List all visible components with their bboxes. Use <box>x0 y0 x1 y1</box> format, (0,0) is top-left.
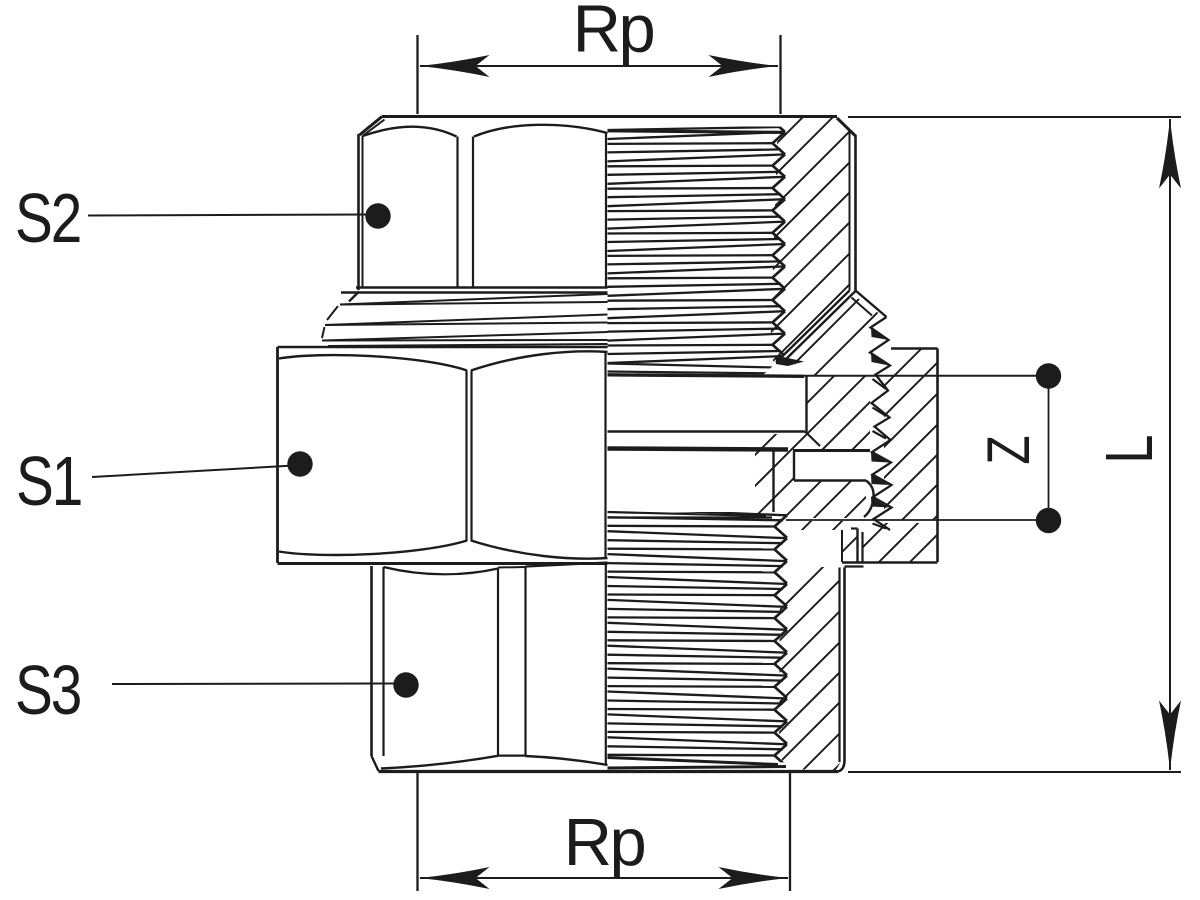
dimension Rp bottom: dimension line with arrows <box>420 867 789 889</box>
section: internal thread bottom zone <box>608 508 788 766</box>
dimension Rp bottom: extension line right <box>789 773 791 891</box>
union nut S3: bottom hex face arcs <box>381 756 608 769</box>
section: middle hatching <box>280 0 1200 900</box>
body S1: hex corner lines <box>467 371 472 542</box>
label S1 leader dot <box>287 451 312 476</box>
label S2 leader dot <box>365 203 390 228</box>
body S1: top hex face arcs <box>279 351 608 370</box>
union nut S2: hex face arcs <box>363 125 608 137</box>
dimension Rp top: dimension line with arrows <box>420 55 779 77</box>
dimension Z: reference line lower <box>786 519 1048 521</box>
dimension L: vertical dimension line with arrows <box>1159 119 1181 771</box>
section: cone gap hatch dashes <box>258 0 1190 900</box>
svg-text:Rp: Rp <box>573 0 654 67</box>
section: male thread dark fills <box>871 328 889 529</box>
label S2 leader line <box>88 215 370 216</box>
label S3 leader line <box>112 683 398 686</box>
dimension Rp top: label <box>573 0 654 67</box>
section: step notch lines <box>842 529 938 563</box>
collar thread run-out wedges <box>322 294 608 346</box>
section boundary edge of S3 hex <box>605 563 607 765</box>
section: flange box hatching <box>370 0 1200 900</box>
label S3 <box>15 651 80 729</box>
label S3 leader dot <box>393 672 418 697</box>
label S1 <box>16 442 81 520</box>
section boundary edge of S1 hex <box>604 352 606 558</box>
dimension L: extension line bottom <box>848 771 1181 773</box>
union nut S3: top hex face arcs <box>384 563 608 575</box>
section: seat heavy line <box>608 449 789 450</box>
dimension Z: label (rotated) <box>975 436 1042 464</box>
section: S3 nut hatching <box>490 0 1200 900</box>
label S1 leader line <box>92 466 294 478</box>
section: flange box outline <box>891 349 938 563</box>
section: body stub lower <box>608 451 774 518</box>
section: bottom bore wedge <box>608 758 787 769</box>
section: body stub upper <box>608 375 821 446</box>
svg-text:S3: S3 <box>15 651 80 729</box>
dimension Rp top: extension line right <box>779 35 781 114</box>
section: slot box <box>793 451 874 518</box>
dimension L: label (rotated) <box>1092 436 1167 464</box>
dimension Rp bottom: label <box>564 805 645 880</box>
svg-text:S1: S1 <box>16 442 81 520</box>
body S1: bottom hex face arcs <box>279 541 608 559</box>
dimension Rp top: extension line left <box>416 35 418 114</box>
section: thread runout dark wedge <box>776 356 804 367</box>
svg-text:Z: Z <box>975 436 1042 464</box>
union nut S3: hex corner lines <box>498 567 526 757</box>
union nut S2: outline (top face, chamfers, left wall) <box>359 117 838 291</box>
section: S3 nut outer wall <box>838 567 864 772</box>
section: male taper thread staircase and zigzag <box>870 317 892 530</box>
union nut S3: left wall <box>372 566 384 771</box>
dimension Rp bottom: extension line left <box>416 773 418 891</box>
dimension Z: lower dot <box>1036 508 1061 533</box>
union nut S2: hex corner lines <box>458 137 474 289</box>
dimension L: extension line top <box>848 116 1181 118</box>
dimension Z: connector line <box>1048 376 1050 520</box>
section: top nut cone edges <box>776 291 887 364</box>
svg-text:Rp: Rp <box>564 805 645 880</box>
dimension Z: upper dot <box>1036 363 1061 388</box>
union nut S2: bottom flange <box>341 288 608 302</box>
svg-text:L: L <box>1092 436 1167 464</box>
section boundary edge of S2 hex <box>605 133 607 287</box>
label S2 <box>15 179 80 257</box>
dimension Z: reference line upper <box>803 375 1048 377</box>
section: top nut outer wall <box>837 118 856 291</box>
union nut S3: bottom face <box>379 770 839 773</box>
svg-text:S2: S2 <box>15 179 80 257</box>
body S1: hex outline <box>278 347 608 564</box>
section: internal thread top zone <box>608 110 789 374</box>
